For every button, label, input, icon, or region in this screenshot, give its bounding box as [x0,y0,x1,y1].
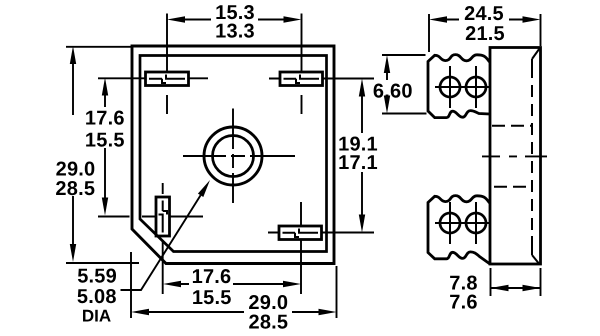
svg-text:17.1: 17.1 [338,152,378,174]
dim 15.3 left arrow [167,16,185,22]
dim 7.8/7.6 line [491,287,541,289]
front view: outer case square with chamfered corner [132,46,334,264]
dim 7.8 left arrow [491,285,509,291]
centerline BR terminal vertical [300,202,302,294]
svg-text:7.6: 7.6 [449,292,477,314]
side body bottom bevel [532,255,539,264]
dim 29.0 bottom right arrow [319,309,337,315]
side body hidden edge vertical solid parts [531,59,533,255]
dim 7.8 right arrow [523,285,541,291]
dim 29.0 left up arrow [70,46,76,64]
dim 29.0/28.5 bottom extension lines [131,252,337,318]
side body hidden edge vertical dashed [531,66,533,236]
dim 24.5 left arrow [429,16,447,22]
svg-text:24.5: 24.5 [464,3,504,25]
side body center line [482,155,547,157]
side terminal block top outline [428,55,490,118]
dim 17.6 left up arrow [102,78,108,96]
dim 29.0/28.5 bottom line [149,311,319,313]
dim 17.6 bottom right arrow [283,281,301,287]
centerline BR terminal horizontal [268,232,374,234]
dim 17.6 left down arrow [102,198,108,216]
hole dia leader tail [121,195,201,290]
side top block crosshairs [435,66,490,108]
terminal tab bottom-right hidden slot [283,229,319,238]
side bottom block crosshairs [435,202,490,244]
dim 6.60 extension lines [382,55,427,114]
centerline BL terminal [98,183,203,294]
terminal tab bottom-left hidden slot [159,201,168,233]
dim 17.6 bottom left arrow [163,281,181,287]
center hole inner circle [213,136,254,177]
dim 17.6/15.5 left line [104,96,106,198]
side body hidden line lower [494,186,531,188]
front view: inner case square [140,56,327,252]
svg-text:17.6: 17.6 [192,266,232,288]
svg-text:28.5: 28.5 [249,312,289,334]
dim 29.0 bottom left arrow [131,309,149,315]
centerline TR terminal vertical [301,14,303,115]
svg-text:5.08: 5.08 [77,286,117,308]
svg-text:15.5: 15.5 [85,130,125,152]
dim 7.8/7.6 extension lines [491,268,541,296]
side bottom block terminal circle 2 [466,213,486,233]
terminal tab bottom-left vertical [156,197,170,236]
side body hidden edge top bevel [532,49,540,60]
dim 6.60 line [386,73,388,99]
dim 6.60 down arrow [384,96,390,114]
dim 24.5/21.5 extension lines [429,14,541,52]
centerline TR terminal horizontal [269,78,374,80]
side top block terminal circle 1 [440,77,460,97]
svg-text:21.5: 21.5 [465,23,505,45]
dim 17.6/15.5 bottom line [181,283,283,285]
svg-text:17.6: 17.6 [85,108,125,130]
side bottom block terminal circle 1 [440,213,460,233]
terminal tab top-right hidden slot [284,75,320,84]
dim 6.60 up arrow [384,55,390,73]
svg-text:5.59: 5.59 [77,266,117,288]
dim 19.1 down arrow [359,215,365,233]
dim 19.1/17.1 line [361,97,363,215]
terminal tab top-right [280,72,323,86]
terminal tab bottom-right [279,226,322,240]
centerline TL terminal vertical [166,14,168,115]
side top block terminal circle 2 [466,77,486,97]
dim 15.3/13.3 line [185,19,284,21]
dim 15.3 right arrow [284,16,302,22]
dim 29.0/28.5 left line [72,64,74,244]
hole centerline vertical [232,109,234,204]
dim 24.5 right arrow [523,16,541,22]
svg-text:28.5: 28.5 [55,178,95,200]
terminal tab top-left [146,72,189,86]
svg-text:DIA: DIA [82,306,111,325]
center hole outer circle [204,127,262,185]
svg-text:6.60: 6.60 [373,81,413,103]
terminal tab top-left hidden slot [149,75,185,84]
hole centerline horizontal [183,155,295,157]
dim 19.1 up arrow [359,79,365,97]
svg-text:13.3: 13.3 [215,21,255,43]
svg-text:15.5: 15.5 [192,287,232,309]
hole dia leader arrow [198,180,210,197]
centerline TL terminal horizontal [98,77,208,79]
dim 24.5/21.5 line [447,19,523,21]
side view main body [490,48,541,265]
side body hidden line upper [492,125,532,127]
dim 29.0 left down arrow [70,244,76,262]
dim 29.0/28.5 left: extension lines [66,47,139,263]
side terminal block bottom outline [428,196,490,264]
